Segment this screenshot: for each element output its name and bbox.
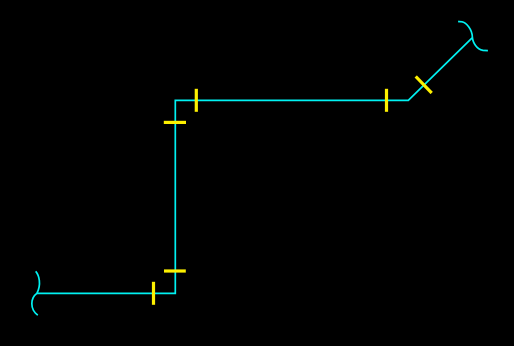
break symbol B1 (pipe-break squiggle, lower-left end)	[32, 271, 40, 315]
tick T6 (angled weld mark perpendicular to diagonal run)	[415, 75, 433, 94]
wire: pipe run polyline (bottom horizontal, vertical riser, top horizontal, 45-degree diagonal)	[37, 38, 473, 294]
tick T4 (vertical weld mark on bottom horizontal run)	[152, 282, 155, 305]
break symbol B2 (pipe-break squiggle, upper-right end)	[458, 22, 488, 51]
tick T1 (vertical weld mark on top horizontal run near corner)	[195, 89, 198, 112]
tick T5 (vertical weld mark on top horizontal run near diagonal)	[385, 89, 388, 112]
tick T3 (horizontal weld mark on vertical riser, lower)	[164, 269, 186, 272]
tick T2 (horizontal weld mark on vertical riser, upper)	[164, 121, 186, 124]
